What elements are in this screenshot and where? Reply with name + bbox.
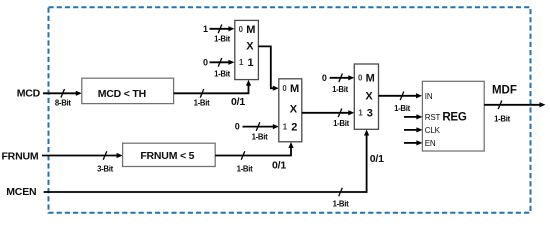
svg-text:1-Bit: 1-Bit <box>494 115 511 124</box>
svg-text:REG: REG <box>442 111 467 123</box>
stub arrow EN <box>404 140 422 145</box>
svg-text:1: 1 <box>239 58 244 67</box>
svg-text:M: M <box>246 24 255 36</box>
svg-text:IN: IN <box>425 92 433 101</box>
svg-text:FRNUM: FRNUM <box>1 150 38 162</box>
svg-text:0: 0 <box>282 84 287 93</box>
svg-text:X: X <box>246 40 254 52</box>
svg-text:1-Bit: 1-Bit <box>394 104 411 113</box>
svg-text:1-Bit: 1-Bit <box>333 199 350 208</box>
wire M3 output to REG IN, 1-Bit <box>379 92 423 114</box>
svg-text:0/1: 0/1 <box>231 96 245 108</box>
svg-text:0: 0 <box>239 25 244 34</box>
svg-text:1-Bit: 1-Bit <box>252 133 269 142</box>
svg-text:3: 3 <box>367 108 373 120</box>
constant 1 into M1 pin 0, 1-Bit <box>203 24 234 44</box>
wire FRNUM to comparator U2, 3-Bit bus <box>42 151 123 173</box>
mux M1 <box>235 20 259 79</box>
svg-text:1-Bit: 1-Bit <box>214 69 231 78</box>
comparator U1 MCD < TH <box>82 78 174 103</box>
register REG <box>422 81 484 151</box>
svg-text:0/1: 0/1 <box>370 153 384 165</box>
svg-text:X: X <box>290 103 298 115</box>
wire U1 output to mux M1 select, 1-Bit <box>174 80 252 108</box>
svg-text:FRNUM < 5: FRNUM < 5 <box>140 150 194 162</box>
svg-text:0/1: 0/1 <box>272 160 286 172</box>
svg-text:0: 0 <box>203 57 208 67</box>
svg-text:0: 0 <box>358 74 363 83</box>
svg-text:RST: RST <box>425 113 441 122</box>
svg-text:0: 0 <box>322 73 327 83</box>
mux M2 <box>279 79 302 142</box>
stub arrow RST <box>404 114 422 119</box>
svg-text:MCD < TH: MCD < TH <box>98 88 146 100</box>
constant 0 into M1 pin 1, 1-Bit <box>203 57 234 78</box>
wire U2 output to mux M2 select, 1-Bit <box>215 142 293 173</box>
dashed module boundary <box>49 7 531 213</box>
comparator U2 FRNUM < 5 <box>123 143 216 166</box>
svg-text:1-Bit: 1-Bit <box>214 35 231 44</box>
wire MDF output, 1-Bit <box>484 101 545 124</box>
svg-text:1: 1 <box>283 122 288 131</box>
svg-text:M: M <box>290 83 299 95</box>
constant 0 into M3 pin 0, 1-Bit <box>322 73 354 94</box>
svg-text:1-Bit: 1-Bit <box>237 164 254 173</box>
wire MCD to comparator U1, 8-Bit bus <box>43 89 82 108</box>
wire MCEN to mux M3 select, 1-Bit <box>44 130 370 209</box>
stub arrow CLK <box>404 127 422 132</box>
svg-text:CLK: CLK <box>425 126 441 135</box>
svg-text:0: 0 <box>235 122 240 132</box>
svg-text:1-Bit: 1-Bit <box>194 99 211 108</box>
svg-text:1: 1 <box>248 57 254 69</box>
svg-text:EN: EN <box>425 139 436 148</box>
svg-text:2: 2 <box>291 121 297 133</box>
svg-text:8-Bit: 8-Bit <box>55 99 72 108</box>
svg-text:MCEN: MCEN <box>6 186 36 198</box>
svg-text:1: 1 <box>358 109 363 118</box>
svg-text:1-Bit: 1-Bit <box>333 119 350 128</box>
svg-text:MDF: MDF <box>492 84 517 96</box>
svg-text:3-Bit: 3-Bit <box>97 164 114 173</box>
svg-text:M: M <box>366 73 375 85</box>
wire M2 output to M3 pin 1, 1-Bit <box>302 109 355 129</box>
svg-text:MCD: MCD <box>17 88 41 100</box>
svg-text:1-Bit: 1-Bit <box>332 85 349 94</box>
wire M1 output to M2 pin 0 <box>258 46 278 90</box>
svg-text:X: X <box>365 90 373 102</box>
mux M3 <box>354 64 378 129</box>
constant 0 into M2 pin 1, 1-Bit <box>235 122 279 142</box>
svg-text:1: 1 <box>203 24 208 34</box>
